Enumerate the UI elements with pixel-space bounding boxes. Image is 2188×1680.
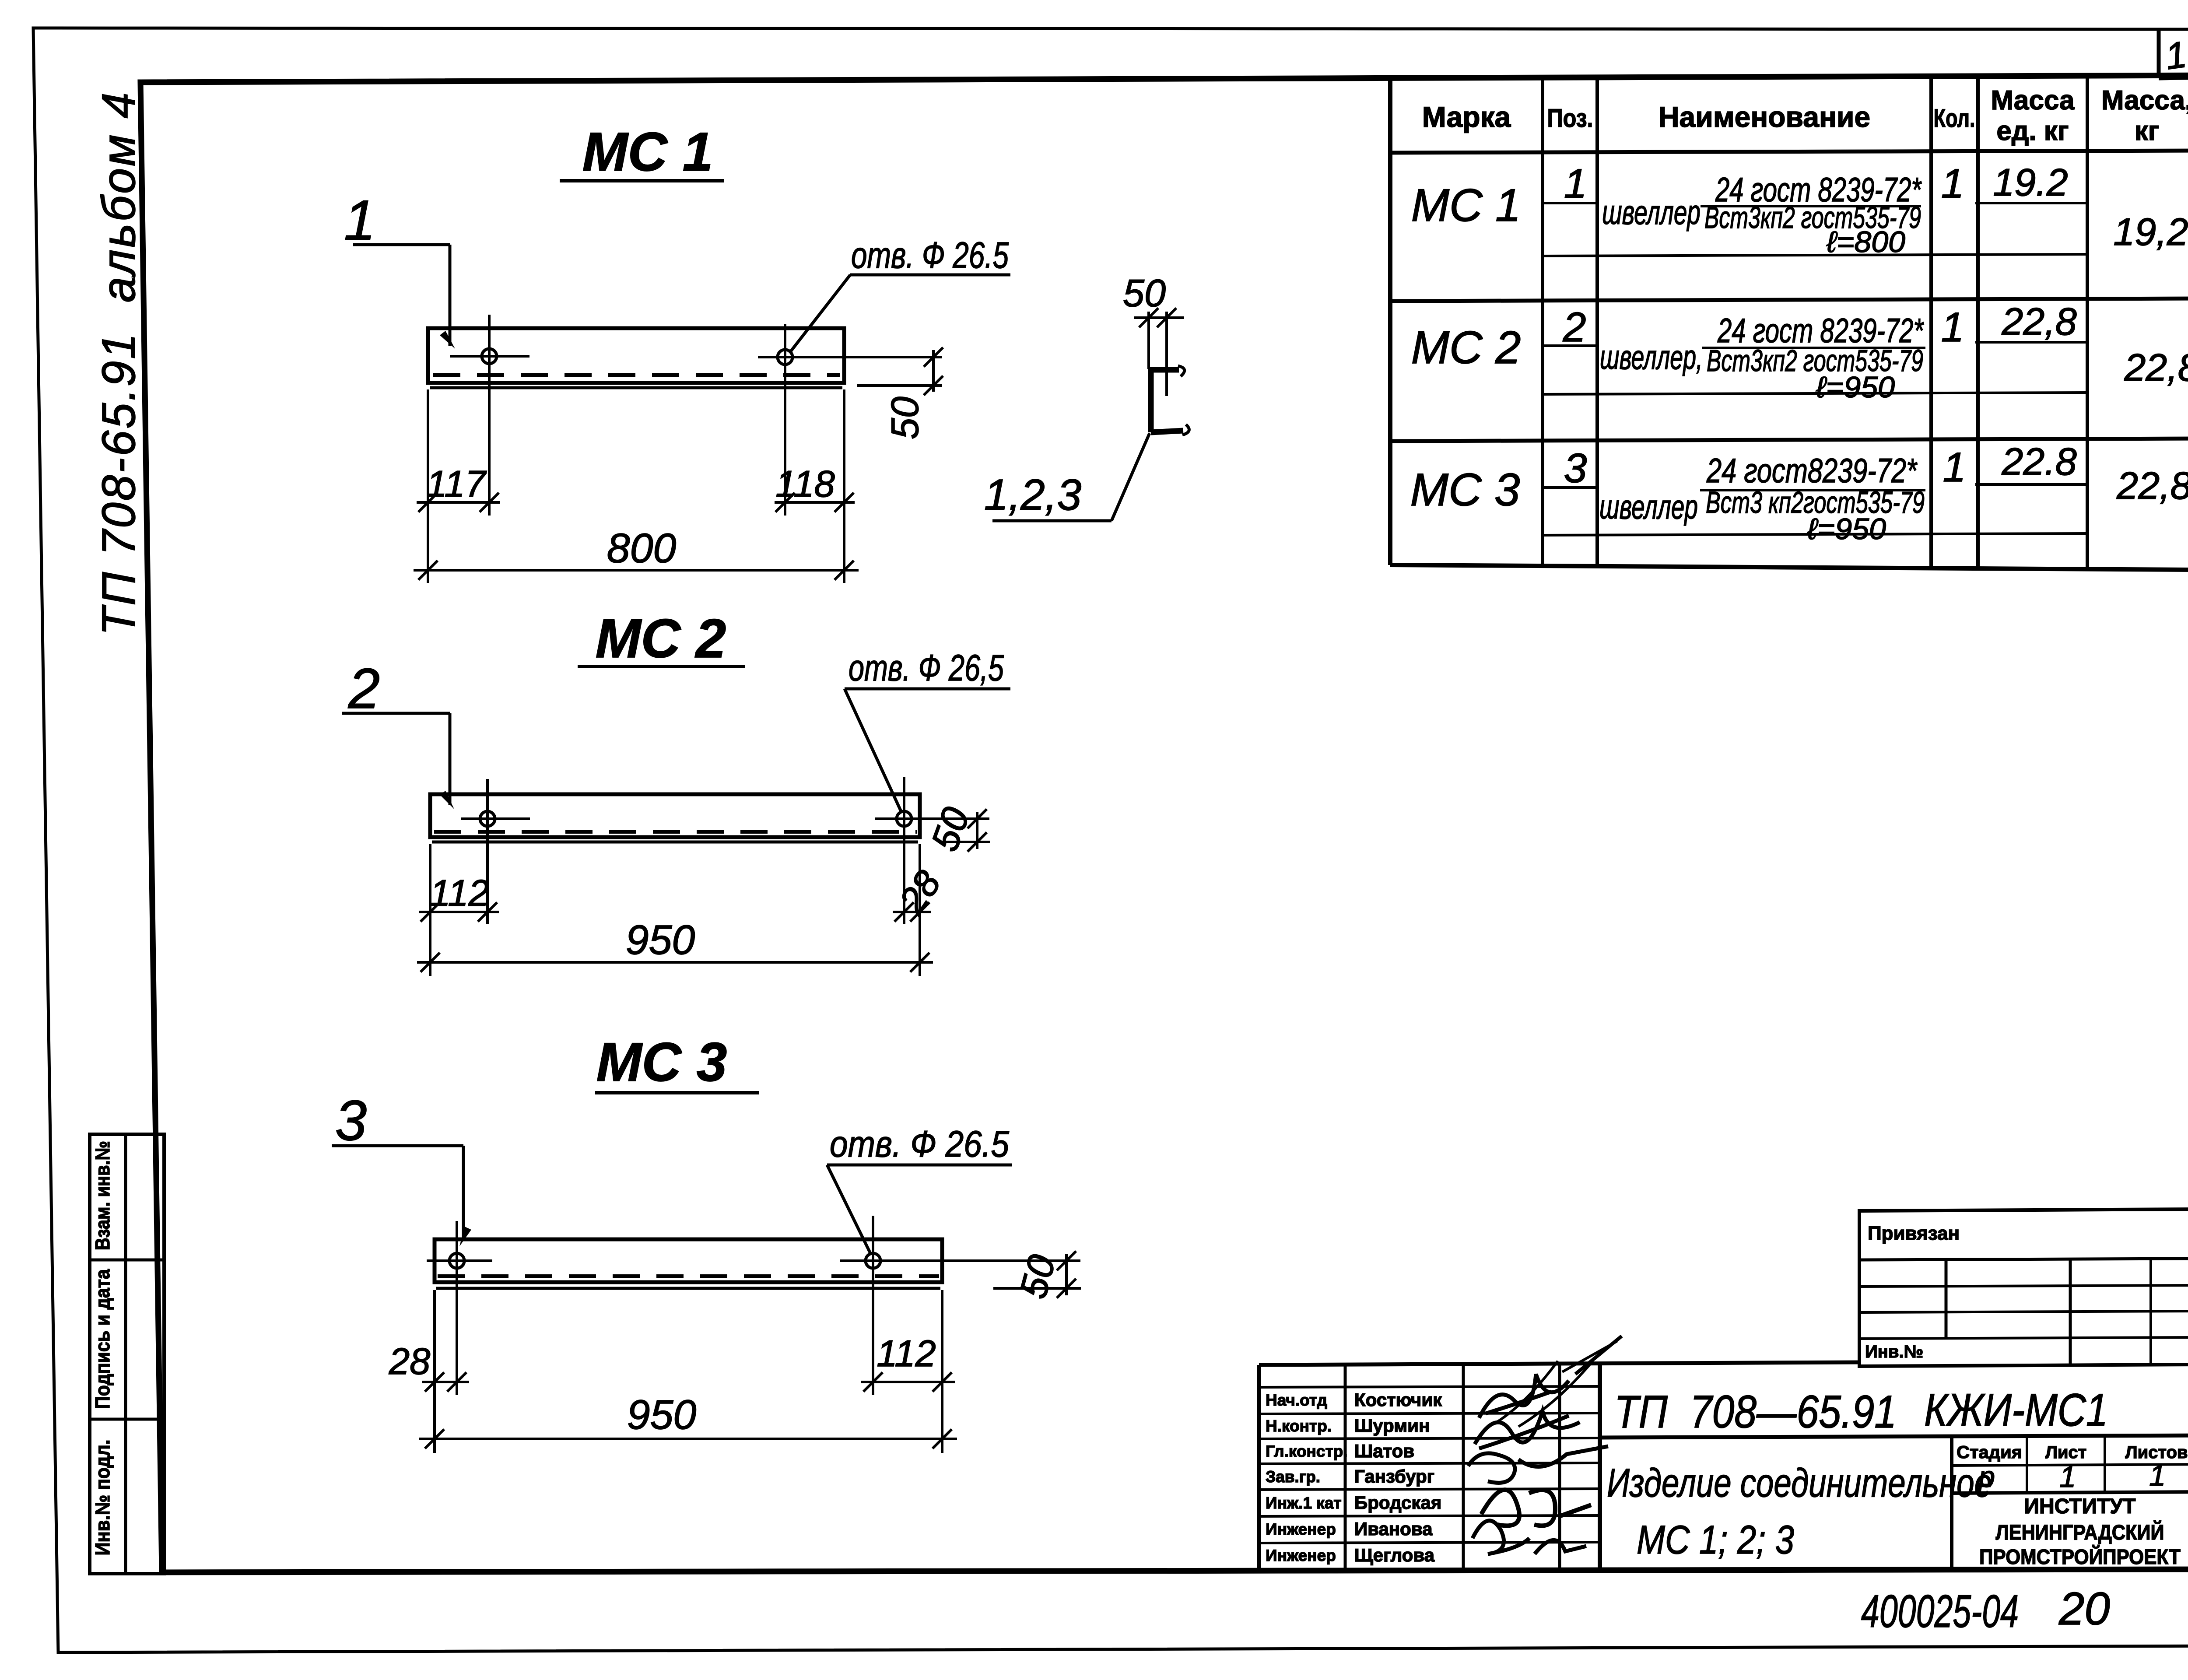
svg-text:ТП 708-65.91 альбом 4: ТП 708-65.91 альбом 4 bbox=[92, 91, 145, 636]
MC2 dim 112 tick right bbox=[478, 902, 497, 922]
svg-text:Шурмин: Шурмин bbox=[1354, 1415, 1430, 1436]
svg-text:118: 118 bbox=[775, 463, 835, 505]
svg-text:Привязан: Привязан bbox=[1868, 1223, 1960, 1244]
poz 2 underline bbox=[1543, 344, 1597, 347]
svg-text:МС 3: МС 3 bbox=[596, 1032, 727, 1093]
svg-text:Инж.1 кат: Инж.1 кат bbox=[1266, 1494, 1342, 1512]
svg-text:Изделие соединительное: Изделие соединительное bbox=[1607, 1461, 1992, 1505]
MC2 dim 28 line bbox=[893, 911, 931, 913]
MC3 title underline bbox=[595, 1091, 759, 1094]
svg-text:МС 1: МС 1 bbox=[582, 122, 713, 182]
MC2 left hole axis h bbox=[461, 817, 530, 820]
section leader diagonal bbox=[1112, 433, 1150, 521]
svg-text:1: 1 bbox=[1564, 161, 1587, 207]
svg-text:22,8: 22,8 bbox=[2001, 300, 2076, 343]
privyazan header line bbox=[1859, 1259, 2188, 1260]
title block h row 7 bbox=[1259, 1542, 1600, 1543]
MC1 dim 117 tick right bbox=[480, 493, 499, 512]
MC2 dim 950 line bbox=[417, 961, 933, 964]
MC3 otv leader bbox=[827, 1165, 871, 1254]
title block stadia header underline bbox=[1952, 1464, 2188, 1466]
svg-text:МС 3: МС 3 bbox=[1410, 464, 1520, 516]
svg-text:Марка: Марка bbox=[1422, 101, 1511, 133]
signature squiggle 2 bbox=[1475, 1411, 1580, 1449]
MC2 dim 950 tick left bbox=[421, 953, 440, 972]
MC3 right hole axis h bbox=[840, 1259, 1080, 1262]
MC1 beam outline bbox=[428, 328, 844, 383]
svg-text:отв. Ф 26,5: отв. Ф 26,5 bbox=[849, 647, 1004, 688]
poz 1 underline bbox=[1543, 202, 1597, 204]
section dim 50 line bbox=[1134, 316, 1184, 319]
MC1 dim 800 line bbox=[414, 569, 859, 572]
MC1 leader vertical bbox=[449, 245, 452, 346]
title block top line bbox=[1259, 1362, 1859, 1365]
MC2 title underline bbox=[578, 665, 745, 668]
MC3 leader arrow bbox=[459, 1227, 471, 1246]
MC2 row subline bbox=[1543, 393, 2087, 394]
svg-text:1: 1 bbox=[1941, 161, 1964, 207]
MC1 dim 118 line bbox=[775, 501, 855, 504]
svg-text:Инженер: Инженер bbox=[1266, 1547, 1336, 1564]
svg-text:2: 2 bbox=[348, 656, 380, 720]
privyazan col 1 bbox=[1945, 1260, 1948, 1339]
svg-text:Подпись и дата: Подпись и дата bbox=[91, 1269, 114, 1409]
MC3 dim 50 line bbox=[1065, 1254, 1068, 1295]
svg-text:Масса,: Масса, bbox=[2101, 85, 2188, 116]
MC3 beam outline bbox=[435, 1239, 942, 1282]
svg-text:Ганзбург: Ганзбург bbox=[1354, 1466, 1434, 1487]
side stamp divider bbox=[124, 1134, 127, 1574]
privyazan col 2 bbox=[2069, 1259, 2072, 1365]
MC2 dim 50 tick top bbox=[968, 809, 987, 828]
section tick right bbox=[1157, 308, 1176, 327]
svg-text:МС 1: МС 1 bbox=[1411, 180, 1521, 231]
MC3 right hole bbox=[866, 1253, 880, 1268]
MC1 right hole axis h bbox=[758, 356, 942, 358]
MC2 beam outline bbox=[430, 794, 920, 837]
MC3 dim 950 tick right bbox=[933, 1429, 952, 1449]
svg-text:1,2,3: 1,2,3 bbox=[984, 470, 1081, 519]
svg-text:Инженер: Инженер bbox=[1266, 1520, 1336, 1538]
svg-text:950: 950 bbox=[626, 917, 695, 963]
MC3 left hole axis h bbox=[427, 1259, 492, 1262]
MC3 leader underline bbox=[332, 1144, 463, 1147]
svg-text:1: 1 bbox=[1941, 304, 1964, 351]
svg-text:Лист: Лист bbox=[2045, 1443, 2087, 1462]
svg-text:КЖИ-МС1: КЖИ-МС1 bbox=[1924, 1385, 2108, 1436]
svg-text:Нач.отд: Нач.отд bbox=[1266, 1391, 1327, 1409]
MC3 dim 28 tick left bbox=[425, 1372, 444, 1392]
MC1 right hole axis v bbox=[784, 324, 786, 516]
table bottom line bbox=[1390, 565, 2188, 570]
MC3 left hole axis v bbox=[456, 1221, 458, 1395]
MC1 right hole bbox=[778, 350, 792, 365]
MC1 dim 50 line bbox=[932, 350, 935, 392]
massa ed underline MC1 bbox=[1975, 202, 2087, 204]
MC3 bottom extension for 50 bbox=[993, 1287, 1081, 1290]
MC2 otv leader bbox=[845, 689, 901, 812]
svg-text:Инв.№ подл.: Инв.№ подл. bbox=[91, 1440, 114, 1556]
section channel profile bbox=[1151, 370, 1183, 432]
MC2 dim 50 line bbox=[976, 812, 978, 849]
svg-text:ед. кг: ед. кг bbox=[1996, 116, 2069, 146]
svg-text:ИНСТИТУТ: ИНСТИТУТ bbox=[2024, 1495, 2136, 1518]
svg-text:ℓ=950: ℓ=950 bbox=[1807, 512, 1886, 546]
table col Naim|Kol bbox=[1929, 78, 1933, 567]
sheet number box bbox=[2157, 31, 2161, 78]
MC1 title underline bbox=[560, 179, 724, 182]
MC1 left hole bbox=[482, 349, 497, 364]
svg-text:112: 112 bbox=[877, 1333, 936, 1375]
MC1 dim 118 tick left bbox=[775, 493, 795, 512]
title block line under TP bbox=[1600, 1435, 2188, 1438]
MC2 right edge extension bbox=[919, 844, 921, 976]
MC1 beam hidden dashed line bbox=[433, 373, 840, 377]
MC1 beam flange line bbox=[430, 386, 842, 389]
title block col date|main bbox=[1598, 1364, 1602, 1570]
svg-text:20: 20 bbox=[2058, 1583, 2110, 1634]
svg-text:Иванова: Иванова bbox=[1354, 1519, 1433, 1539]
MC3 dim 950 tick left bbox=[425, 1429, 444, 1449]
MC3 row subline bbox=[1543, 533, 2087, 535]
section ext left bbox=[1147, 312, 1150, 369]
svg-text:Взам. инв.№: Взам. инв.№ bbox=[91, 1141, 114, 1250]
svg-text:швеллер: швеллер bbox=[1599, 488, 1698, 526]
section leader underline bbox=[992, 519, 1112, 523]
MC3 dim 28 tick right bbox=[447, 1372, 466, 1392]
svg-text:Бродская: Бродская bbox=[1354, 1492, 1441, 1513]
MC1 dim 117 line bbox=[417, 501, 500, 504]
MC3 left edge extension bbox=[433, 1290, 436, 1453]
MC1 fraction bar bbox=[1701, 205, 1921, 207]
svg-text:1: 1 bbox=[1943, 444, 1966, 491]
table row MC2 bottom line bbox=[1390, 438, 2188, 441]
svg-text:28: 28 bbox=[389, 1341, 431, 1382]
MC2 dim 112 tick left bbox=[421, 902, 440, 922]
signature flourish bbox=[1497, 1341, 1617, 1427]
massa ed underline MC2 bbox=[1975, 341, 2087, 344]
title block col labels|names bbox=[1344, 1365, 1347, 1571]
svg-text:3: 3 bbox=[335, 1088, 367, 1152]
svg-text:3: 3 bbox=[1564, 445, 1587, 491]
MC2 leader arrow bbox=[440, 791, 454, 809]
privyazan row line 2 bbox=[1859, 1285, 2188, 1287]
table col Poz|Naimenovanie bbox=[1595, 79, 1599, 565]
svg-text:Инв.№: Инв.№ bbox=[1865, 1342, 1923, 1361]
svg-text:22.8: 22.8 bbox=[2001, 440, 2076, 483]
MC1 dim 800 tick right bbox=[835, 561, 854, 580]
signature squiggle 1 bbox=[1479, 1374, 1569, 1418]
MC2 right hole axis h bbox=[875, 817, 989, 820]
MC3 dim 112 tick left bbox=[863, 1372, 883, 1392]
svg-text:Н.контр.: Н.контр. bbox=[1266, 1417, 1332, 1435]
svg-text:Шатов: Шатов bbox=[1354, 1441, 1414, 1461]
svg-text:швеллер: швеллер bbox=[1602, 193, 1701, 231]
svg-text:ℓ=950: ℓ=950 bbox=[1816, 371, 1895, 404]
MC1 row subline bbox=[1543, 254, 2087, 256]
svg-text:1: 1 bbox=[2149, 1459, 2166, 1492]
MC1 leader arrow bbox=[440, 331, 455, 349]
svg-text:р: р bbox=[1978, 1460, 1995, 1494]
MC3 right hole axis v bbox=[872, 1216, 874, 1395]
svg-text:1: 1 bbox=[2059, 1460, 2076, 1494]
svg-text:отв. Ф 26.5: отв. Ф 26.5 bbox=[851, 235, 1009, 276]
MC1 dim 117 tick left bbox=[418, 493, 438, 512]
MC2 beam hidden dashed line bbox=[434, 830, 917, 834]
MC1 otv leader bbox=[790, 275, 850, 352]
svg-text:МС 2: МС 2 bbox=[1411, 322, 1521, 373]
MC2 otv underline bbox=[845, 687, 1010, 691]
svg-text:Масса: Масса bbox=[1991, 85, 2075, 116]
signature squiggle 3 bbox=[1468, 1446, 1608, 1483]
MC3 leader vertical bbox=[462, 1146, 465, 1240]
signature squiggle 4 bbox=[1481, 1490, 1591, 1526]
svg-text:950: 950 bbox=[627, 1392, 697, 1438]
MC3 dim 112 tick right bbox=[933, 1372, 952, 1392]
MC3 right edge extension bbox=[941, 1290, 943, 1453]
MC2 left hole bbox=[480, 811, 495, 826]
svg-text:Гл.констр.: Гл.констр. bbox=[1266, 1442, 1347, 1460]
svg-text:19,2: 19,2 bbox=[2113, 210, 2188, 253]
svg-text:112: 112 bbox=[430, 873, 489, 914]
MC1 left hole axis v bbox=[488, 315, 491, 516]
MC3 fraction bar bbox=[1700, 489, 1925, 491]
MC3 dim 950 line bbox=[419, 1438, 957, 1440]
svg-text:50: 50 bbox=[1123, 271, 1166, 315]
svg-text:Кол.: Кол. bbox=[1934, 104, 1975, 133]
svg-text:кг: кг bbox=[2135, 116, 2160, 146]
side stamp row line 1 bbox=[90, 1259, 164, 1262]
title block h row 2 bbox=[1259, 1413, 1600, 1414]
MC3 dim 50 tick bottom bbox=[1057, 1279, 1076, 1298]
MC1 right edge extension bbox=[843, 389, 845, 583]
MC3 dim 112 line bbox=[861, 1381, 955, 1383]
svg-text:22,8: 22,8 bbox=[2124, 346, 2188, 389]
side stamp row line 2 bbox=[90, 1418, 164, 1421]
MC2 dim 950 tick right bbox=[910, 953, 929, 972]
MC2 dim 50 tick bottom bbox=[968, 832, 987, 852]
signature squiggle 5 bbox=[1473, 1521, 1586, 1554]
svg-text:1: 1 bbox=[344, 188, 375, 252]
svg-text:Поз.: Поз. bbox=[1547, 104, 1593, 133]
MC2 dim 28 tick left bbox=[894, 902, 914, 922]
privyazan col 3 bbox=[2149, 1259, 2152, 1365]
massa ed underline MC3 bbox=[1975, 483, 2087, 486]
svg-text:400025-04: 400025-04 bbox=[1861, 1586, 2019, 1637]
MC3 left hole bbox=[449, 1253, 464, 1268]
privyazan row line 4 bbox=[1859, 1337, 2188, 1339]
svg-text:ПРОМСТРОЙПРОЕКТ: ПРОМСТРОЙПРОЕКТ bbox=[1979, 1545, 2181, 1569]
table header bottom line bbox=[1390, 151, 2188, 153]
MC2 right hole bbox=[897, 811, 912, 826]
MC1 dim 50 tick bottom bbox=[924, 376, 943, 395]
svg-text:Наименование: Наименование bbox=[1659, 101, 1870, 133]
MC2 bottom extension for 50 bbox=[941, 841, 990, 843]
MC2 fraction bar bbox=[1702, 347, 1925, 349]
MC1 otv underline bbox=[850, 274, 1010, 277]
MC2 leader underline bbox=[342, 712, 450, 715]
svg-text:50: 50 bbox=[883, 396, 926, 439]
MC1 dim 800 tick left bbox=[418, 561, 438, 580]
MC2 right hole axis v bbox=[903, 777, 905, 924]
svg-text:швеллер,: швеллер, bbox=[1600, 338, 1703, 376]
title block h row 6 bbox=[1259, 1515, 1600, 1516]
side stamp box bbox=[90, 1134, 164, 1574]
MC2 dim 112 line bbox=[419, 911, 499, 913]
title block col names|sign bbox=[1462, 1364, 1465, 1571]
MC3 dim 28 line bbox=[422, 1381, 469, 1383]
table left edge bbox=[1388, 79, 1392, 565]
table col Massa-ed|Massa bbox=[2086, 77, 2089, 568]
title block h row 3 bbox=[1259, 1438, 1600, 1439]
svg-text:19.2: 19.2 bbox=[1993, 161, 2068, 204]
title block col stadia|list bbox=[2026, 1438, 2028, 1493]
MC2 leader vertical bbox=[449, 713, 452, 805]
svg-text:117: 117 bbox=[426, 463, 487, 505]
svg-text:800: 800 bbox=[607, 525, 677, 572]
table col Marka|Poz bbox=[1541, 79, 1544, 565]
section ext right bbox=[1165, 312, 1168, 396]
MC3 beam hidden dashed line bbox=[438, 1274, 939, 1278]
svg-text:МС 2: МС 2 bbox=[596, 608, 726, 669]
privyazan row line 3 bbox=[1859, 1311, 2188, 1312]
table row MC1 bottom line bbox=[1390, 298, 2188, 301]
poz 3 underline bbox=[1543, 486, 1597, 489]
MC2 left edge extension bbox=[429, 844, 431, 976]
title block col list|listov bbox=[2104, 1437, 2106, 1492]
title block stadia values underline bbox=[1952, 1492, 2188, 1493]
MC1 left edge extension bbox=[427, 389, 429, 583]
svg-text:МС 1; 2; 3: МС 1; 2; 3 bbox=[1637, 1518, 1794, 1562]
svg-text:отв. Ф 26.5: отв. Ф 26.5 bbox=[830, 1123, 1009, 1164]
MC1 left hole axis h bbox=[450, 355, 529, 358]
title block h row 1 bbox=[1259, 1386, 1600, 1387]
MC1 bottom extension for 50 bbox=[857, 384, 942, 387]
svg-text:2: 2 bbox=[1563, 304, 1586, 351]
svg-text:Зав.гр.: Зав.гр. bbox=[1266, 1468, 1320, 1486]
MC3 beam flange line bbox=[436, 1287, 940, 1290]
MC3 otv underline bbox=[827, 1164, 1012, 1167]
MC2 dim 28 tick right bbox=[910, 902, 929, 922]
svg-text:22,8.: 22,8. bbox=[2116, 464, 2188, 507]
MC1 dim 118 tick right bbox=[835, 493, 854, 512]
privyazan box bbox=[1859, 1209, 2188, 1366]
title block col sign|date bbox=[1558, 1364, 1561, 1570]
check slash over title block bbox=[1575, 1336, 1622, 1374]
MC2 left hole axis v bbox=[486, 779, 489, 924]
section tick left bbox=[1139, 308, 1158, 327]
MC3 dim 50 tick top bbox=[1057, 1251, 1076, 1270]
title block stadia col left bbox=[1950, 1438, 1953, 1570]
table col Kol|Massa-ed bbox=[1976, 78, 1980, 568]
title block left edge bbox=[1257, 1365, 1261, 1571]
MC2 beam flange line bbox=[432, 841, 918, 844]
svg-text:Стадия: Стадия bbox=[1957, 1443, 2022, 1462]
title block h row 4 bbox=[1259, 1463, 1600, 1464]
svg-text:ЛЕНИНГРАДСКИЙ: ЛЕНИНГРАДСКИЙ bbox=[1996, 1520, 2164, 1544]
MC1 dim 50 tick top bbox=[924, 347, 943, 367]
MC1 leader underline bbox=[353, 243, 450, 246]
svg-text:ТП 708—65.91: ТП 708—65.91 bbox=[1614, 1386, 1897, 1438]
title block h row 5 bbox=[1259, 1489, 1600, 1490]
svg-text:Щеглова: Щеглова bbox=[1354, 1545, 1435, 1565]
svg-text:24 гост8239-72*: 24 гост8239-72* bbox=[1706, 451, 1918, 490]
svg-text:Костючик: Костючик bbox=[1354, 1389, 1442, 1410]
